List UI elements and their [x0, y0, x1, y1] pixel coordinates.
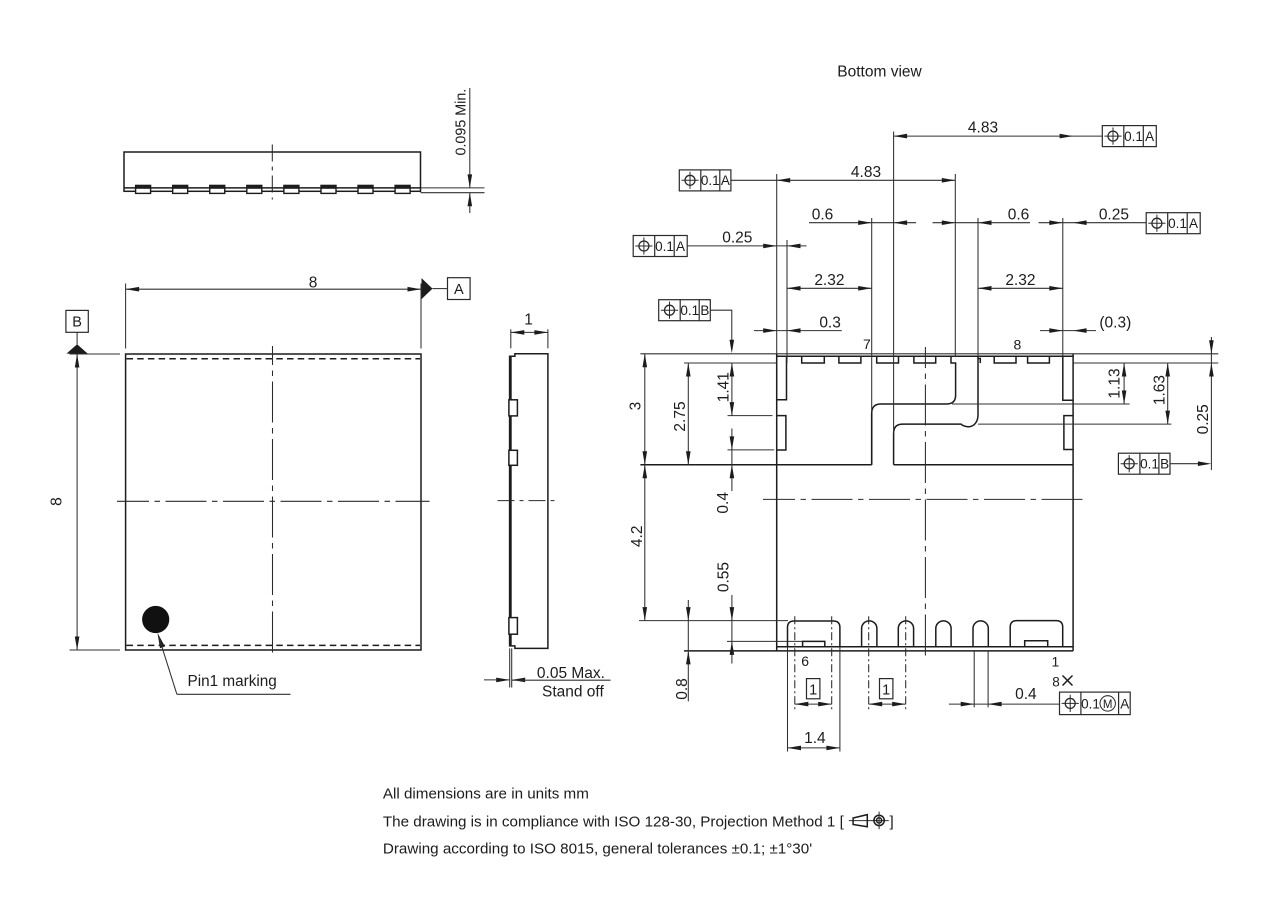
top pad 3: [839, 356, 861, 363]
pad7 right edge: [871, 413, 873, 465]
dim 0.6 right: [933, 222, 1031, 224]
gate finger right boundary: [894, 356, 978, 465]
dashed edge line bottom: [127, 644, 421, 646]
FOOTER: [383, 786, 894, 858]
gate finger left boundary: [872, 356, 956, 465]
TOPVIEW: [49, 275, 471, 695]
pin 2: [973, 621, 988, 647]
pin 3: [936, 621, 951, 647]
pin 4: [898, 621, 913, 647]
svg-text:B: B: [700, 303, 709, 318]
dim 2.32 left: [787, 287, 872, 289]
frame 0.1MA bottom: [1060, 692, 1131, 715]
datum B triangle: [67, 344, 88, 353]
thick lead frame edge: [509, 356, 512, 646]
extension line slot left: [871, 218, 873, 413]
dim 1 extension lines: [510, 329, 512, 348]
frame 0.1A upper left: [679, 170, 731, 191]
top inner edge: [777, 355, 1073, 357]
svg-text:2.32: 2.32: [814, 272, 844, 289]
svg-text:B: B: [1160, 457, 1169, 472]
extension line finger right: [977, 218, 979, 356]
svg-text:Stand off: Stand off: [542, 683, 604, 700]
svg-text:4.83: 4.83: [968, 120, 998, 137]
svg-text:1: 1: [882, 683, 890, 699]
side pin 7: [509, 450, 518, 465]
pin 6 tie bar: [803, 641, 825, 646]
svg-text:A: A: [1145, 129, 1154, 144]
centerline horizontal: [763, 498, 1087, 500]
dim 0.8: [687, 600, 689, 701]
extension line pkg left: [776, 174, 778, 354]
dim 8 top: [126, 288, 421, 290]
centerline horizontal: [117, 500, 430, 502]
center mark pin6 right: [831, 616, 833, 709]
frame 0.1A right: [1146, 213, 1200, 234]
svg-text:1: 1: [1052, 654, 1060, 670]
svg-text:0.1: 0.1: [1081, 696, 1100, 711]
extension line 0.4 left: [728, 449, 775, 451]
svg-text:0.3: 0.3: [819, 314, 841, 331]
svg-text:A: A: [1189, 216, 1198, 231]
finger pad jog: [978, 359, 980, 364]
extension line pad bottom right: [1073, 362, 1218, 364]
bottom edge line: [684, 650, 1073, 652]
extension line corner pad right view: [1062, 218, 1064, 356]
standoff extension lines: [509, 648, 511, 687]
extension line pad bottom left: [684, 362, 777, 364]
extension line 1.13 level: [952, 403, 1130, 405]
boxed dim 1 pin4: [880, 679, 893, 699]
left mid pad: [777, 416, 786, 450]
pin 1 tie bar: [1025, 641, 1048, 647]
left edge: [776, 354, 778, 651]
dim 2.75: [687, 363, 689, 465]
svg-text:1.4: 1.4: [804, 730, 826, 747]
right edge: [1072, 354, 1074, 651]
svg-text:A: A: [676, 239, 685, 254]
centerline vertical: [272, 346, 274, 657]
dim 4.83 lower: [731, 179, 955, 181]
top edge line: [640, 353, 1218, 355]
datum B box: [66, 310, 88, 332]
dim 0.25 right vertical: [1210, 337, 1212, 470]
dim 1: [511, 331, 548, 333]
svg-text:0.1: 0.1: [701, 173, 720, 188]
standoff arrows: [484, 679, 510, 681]
dim 4.2: [644, 465, 646, 621]
svg-text:8: 8: [1014, 336, 1022, 352]
package body side view narrow: [510, 354, 548, 649]
side pin 8: [509, 400, 518, 416]
svg-text:6: 6: [801, 653, 809, 669]
svg-text:8: 8: [309, 275, 318, 292]
svg-text:0.25: 0.25: [722, 230, 752, 247]
svg-text:0.1: 0.1: [655, 239, 674, 254]
package body side view: [124, 152, 421, 191]
svg-text:1: 1: [809, 683, 817, 699]
right mid pad: [1064, 416, 1073, 450]
boxed dim 1 pin6: [807, 679, 820, 699]
package body top view: [126, 354, 421, 650]
svg-text:3: 3: [627, 402, 644, 411]
extension line finger left: [954, 174, 956, 356]
svg-text:Drawing according to ISO 8015,: Drawing according to ISO 8015, general t…: [383, 841, 812, 858]
svg-text:8: 8: [49, 497, 66, 506]
svg-text:0.05 Max.: 0.05 Max.: [537, 665, 605, 682]
upper pads bottom line right: [894, 464, 1074, 466]
dim 0.6 left: [809, 222, 916, 224]
svg-text:M: M: [1103, 699, 1113, 711]
svg-text:0.25: 0.25: [1099, 207, 1129, 224]
dim 1.4: [788, 747, 840, 749]
pin 5: [862, 621, 877, 647]
center mark pin5: [868, 616, 870, 709]
dashed edge line top: [127, 358, 421, 360]
pin1 marking dot: [142, 606, 169, 633]
dim 0.4 left: [731, 429, 733, 492]
extension line 1.41 bottom: [728, 415, 773, 417]
svg-text:A: A: [1120, 696, 1129, 711]
extension line pin6 left: [787, 647, 789, 752]
extension line pin2 left: [973, 651, 975, 707]
pin row side view: [136, 185, 411, 193]
svg-text:0.6: 0.6: [812, 207, 834, 224]
dim 0.095 Min extension lines: [421, 187, 485, 189]
frame 0.1B right: [1118, 453, 1211, 474]
extension line 1.63 level: [978, 423, 1171, 425]
svg-text:2.75: 2.75: [672, 401, 689, 431]
svg-text:0.1: 0.1: [680, 303, 699, 318]
svg-text:0.8: 0.8: [674, 678, 691, 700]
svg-text:0.1: 0.1: [1168, 216, 1187, 231]
svg-text:4.83: 4.83: [851, 164, 881, 181]
frame 0.1A left: [633, 236, 687, 257]
extension line pin6 right: [839, 647, 841, 752]
top pad 5: [914, 356, 936, 363]
dim 0.25 right: [1039, 222, 1147, 224]
svg-text:Bottom view: Bottom view: [837, 63, 922, 80]
svg-text:The drawing is in compliance w: The drawing is in compliance with ISO 12…: [383, 813, 845, 830]
extension line pin2 right: [987, 651, 989, 707]
bottom inner edge: [777, 646, 1073, 648]
svg-text:1.63: 1.63: [1151, 375, 1168, 405]
svg-text:7: 7: [863, 336, 871, 352]
top pad 7: [994, 356, 1016, 363]
dim 3: [644, 354, 646, 465]
projection symbol cone: [849, 812, 889, 830]
pin 1 pad: [1010, 621, 1062, 647]
dim 1.41: [731, 363, 733, 416]
dim 2.32 right: [978, 287, 1063, 289]
upper pads bottom line left: [640, 464, 871, 466]
pin 6 pad: [788, 621, 840, 647]
frame 0.1A upper right: [1102, 126, 1156, 147]
extension line pad edge 787: [786, 240, 788, 363]
lead frame line: [124, 187, 421, 189]
svg-text:A: A: [721, 173, 730, 188]
dim (0.3): [1040, 330, 1096, 332]
dim 0.55: [731, 595, 733, 664]
svg-text:0.1: 0.1: [1124, 129, 1143, 144]
centerline vertical: [924, 347, 926, 656]
svg-text:A: A: [454, 282, 464, 298]
dim 0.25 lower left: [687, 245, 806, 247]
pin1 leader arrow: [157, 633, 165, 649]
svg-text:8: 8: [1052, 675, 1060, 690]
svg-text:B: B: [72, 315, 82, 331]
center mark pin6 left: [794, 616, 796, 709]
corner pad top-right: [1063, 356, 1073, 400]
svg-text:0.4: 0.4: [1015, 686, 1037, 703]
top pad 2: [802, 356, 825, 363]
svg-text:0.095 Min.: 0.095 Min.: [454, 89, 470, 156]
svg-text:0.25: 0.25: [1195, 404, 1212, 434]
dim 1.13: [1123, 363, 1125, 404]
top pad 4 pin7: [877, 356, 899, 363]
BOTTOMVIEW: [627, 63, 1218, 751]
side pin 1: [509, 618, 518, 635]
svg-text:1.13: 1.13: [1107, 368, 1124, 398]
dim 1.63: [1167, 363, 1169, 424]
svg-text:1: 1: [524, 312, 533, 329]
svg-text:]: ]: [890, 813, 894, 830]
centerline: [271, 145, 273, 200]
centerline: [498, 500, 557, 502]
corner pad top-left: [777, 356, 787, 400]
datum A box: [448, 278, 471, 300]
frame 0.1B left: [659, 300, 734, 354]
dim 4.83 upper: [894, 135, 1103, 137]
extension line tie bar top: [727, 640, 803, 642]
svg-text:Pin1 marking: Pin1 marking: [188, 673, 277, 690]
dim 0.095 Min arrows: [469, 88, 471, 188]
svg-text:0.1: 0.1: [1140, 457, 1159, 472]
svg-text:All dimensions are in units mm: All dimensions are in units mm: [383, 786, 589, 803]
svg-text:0.6: 0.6: [1008, 207, 1030, 224]
svg-text:1.41: 1.41: [715, 372, 732, 402]
MIDVIEW: [484, 312, 611, 701]
svg-text:0.4: 0.4: [715, 492, 732, 514]
extension line slot right: [893, 132, 895, 434]
svg-text:2.32: 2.32: [1005, 272, 1035, 289]
top pad 8: [1028, 356, 1050, 363]
datum A triangle: [422, 278, 433, 299]
dim 0.3: [754, 330, 842, 332]
center mark pin4: [905, 616, 907, 709]
dim 8 left: [76, 354, 78, 650]
svg-text:0.55: 0.55: [716, 562, 733, 592]
svg-text:4.2: 4.2: [629, 526, 646, 548]
dim 8 top extension lines: [125, 284, 127, 349]
SIDEVIEW-TOP: [124, 88, 485, 213]
svg-text:(0.3): (0.3): [1099, 314, 1131, 331]
dim 8 left extension lines: [70, 353, 121, 355]
extension line pin top level: [639, 620, 788, 622]
dim 0.4 bottom: [949, 703, 1060, 705]
